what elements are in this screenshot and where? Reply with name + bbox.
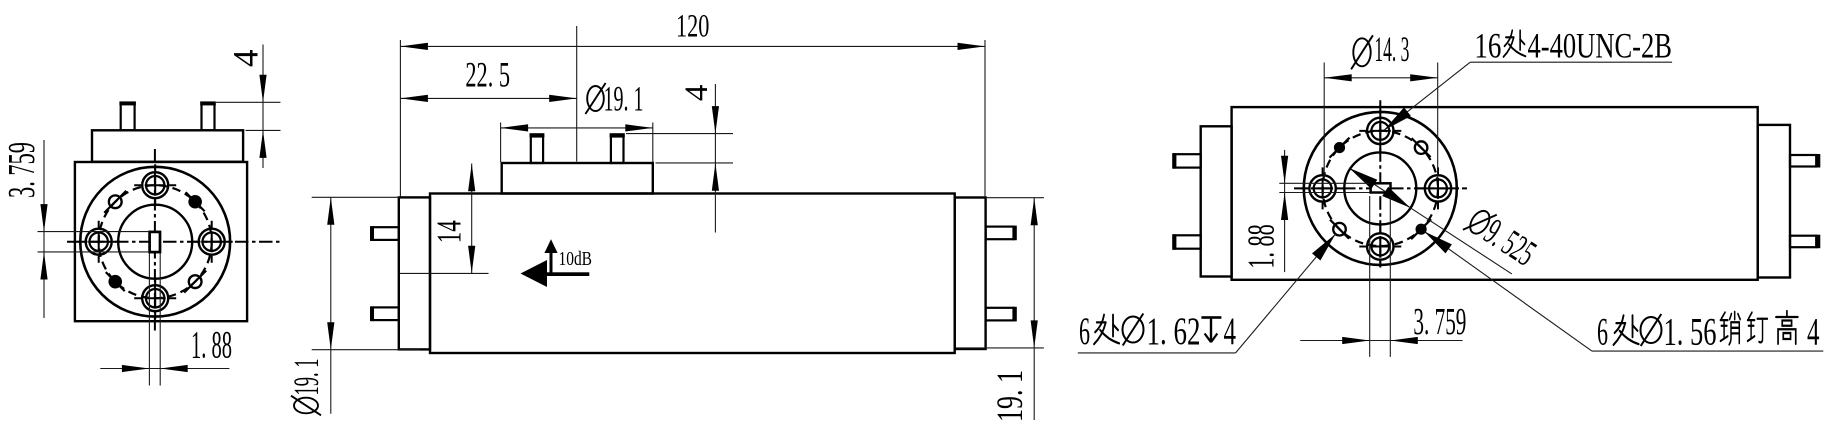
svg-text:3. 759: 3. 759 [1,142,43,198]
svg-text:4: 4 [226,50,266,68]
svg-text:4-40UNC-2B: 4-40UNC-2B [1528,26,1673,66]
svg-text:10dB: 10dB [559,248,593,270]
svg-text:4: 4 [1807,311,1820,354]
svg-text:19. 1: 19. 1 [286,359,326,396]
svg-text:6: 6 [1597,311,1608,354]
svg-text:14: 14 [430,220,469,243]
svg-text:1. 56: 1. 56 [1664,311,1717,354]
svg-text:19. 1: 19. 1 [604,79,644,119]
svg-text:22. 5: 22. 5 [465,55,510,95]
svg-text:120: 120 [676,9,709,45]
svg-text:6: 6 [1079,310,1090,353]
svg-text:4: 4 [1224,310,1237,353]
svg-text:1. 88: 1. 88 [191,324,232,367]
svg-text:4: 4 [679,85,715,102]
svg-text:16: 16 [1474,26,1501,66]
svg-text:19. 1: 19. 1 [990,370,1031,422]
svg-text:3. 759: 3. 759 [1413,301,1466,343]
svg-text:1. 62: 1. 62 [1147,310,1201,353]
svg-text:14. 3: 14. 3 [1374,29,1409,69]
svg-text:1. 88: 1. 88 [1241,224,1283,269]
